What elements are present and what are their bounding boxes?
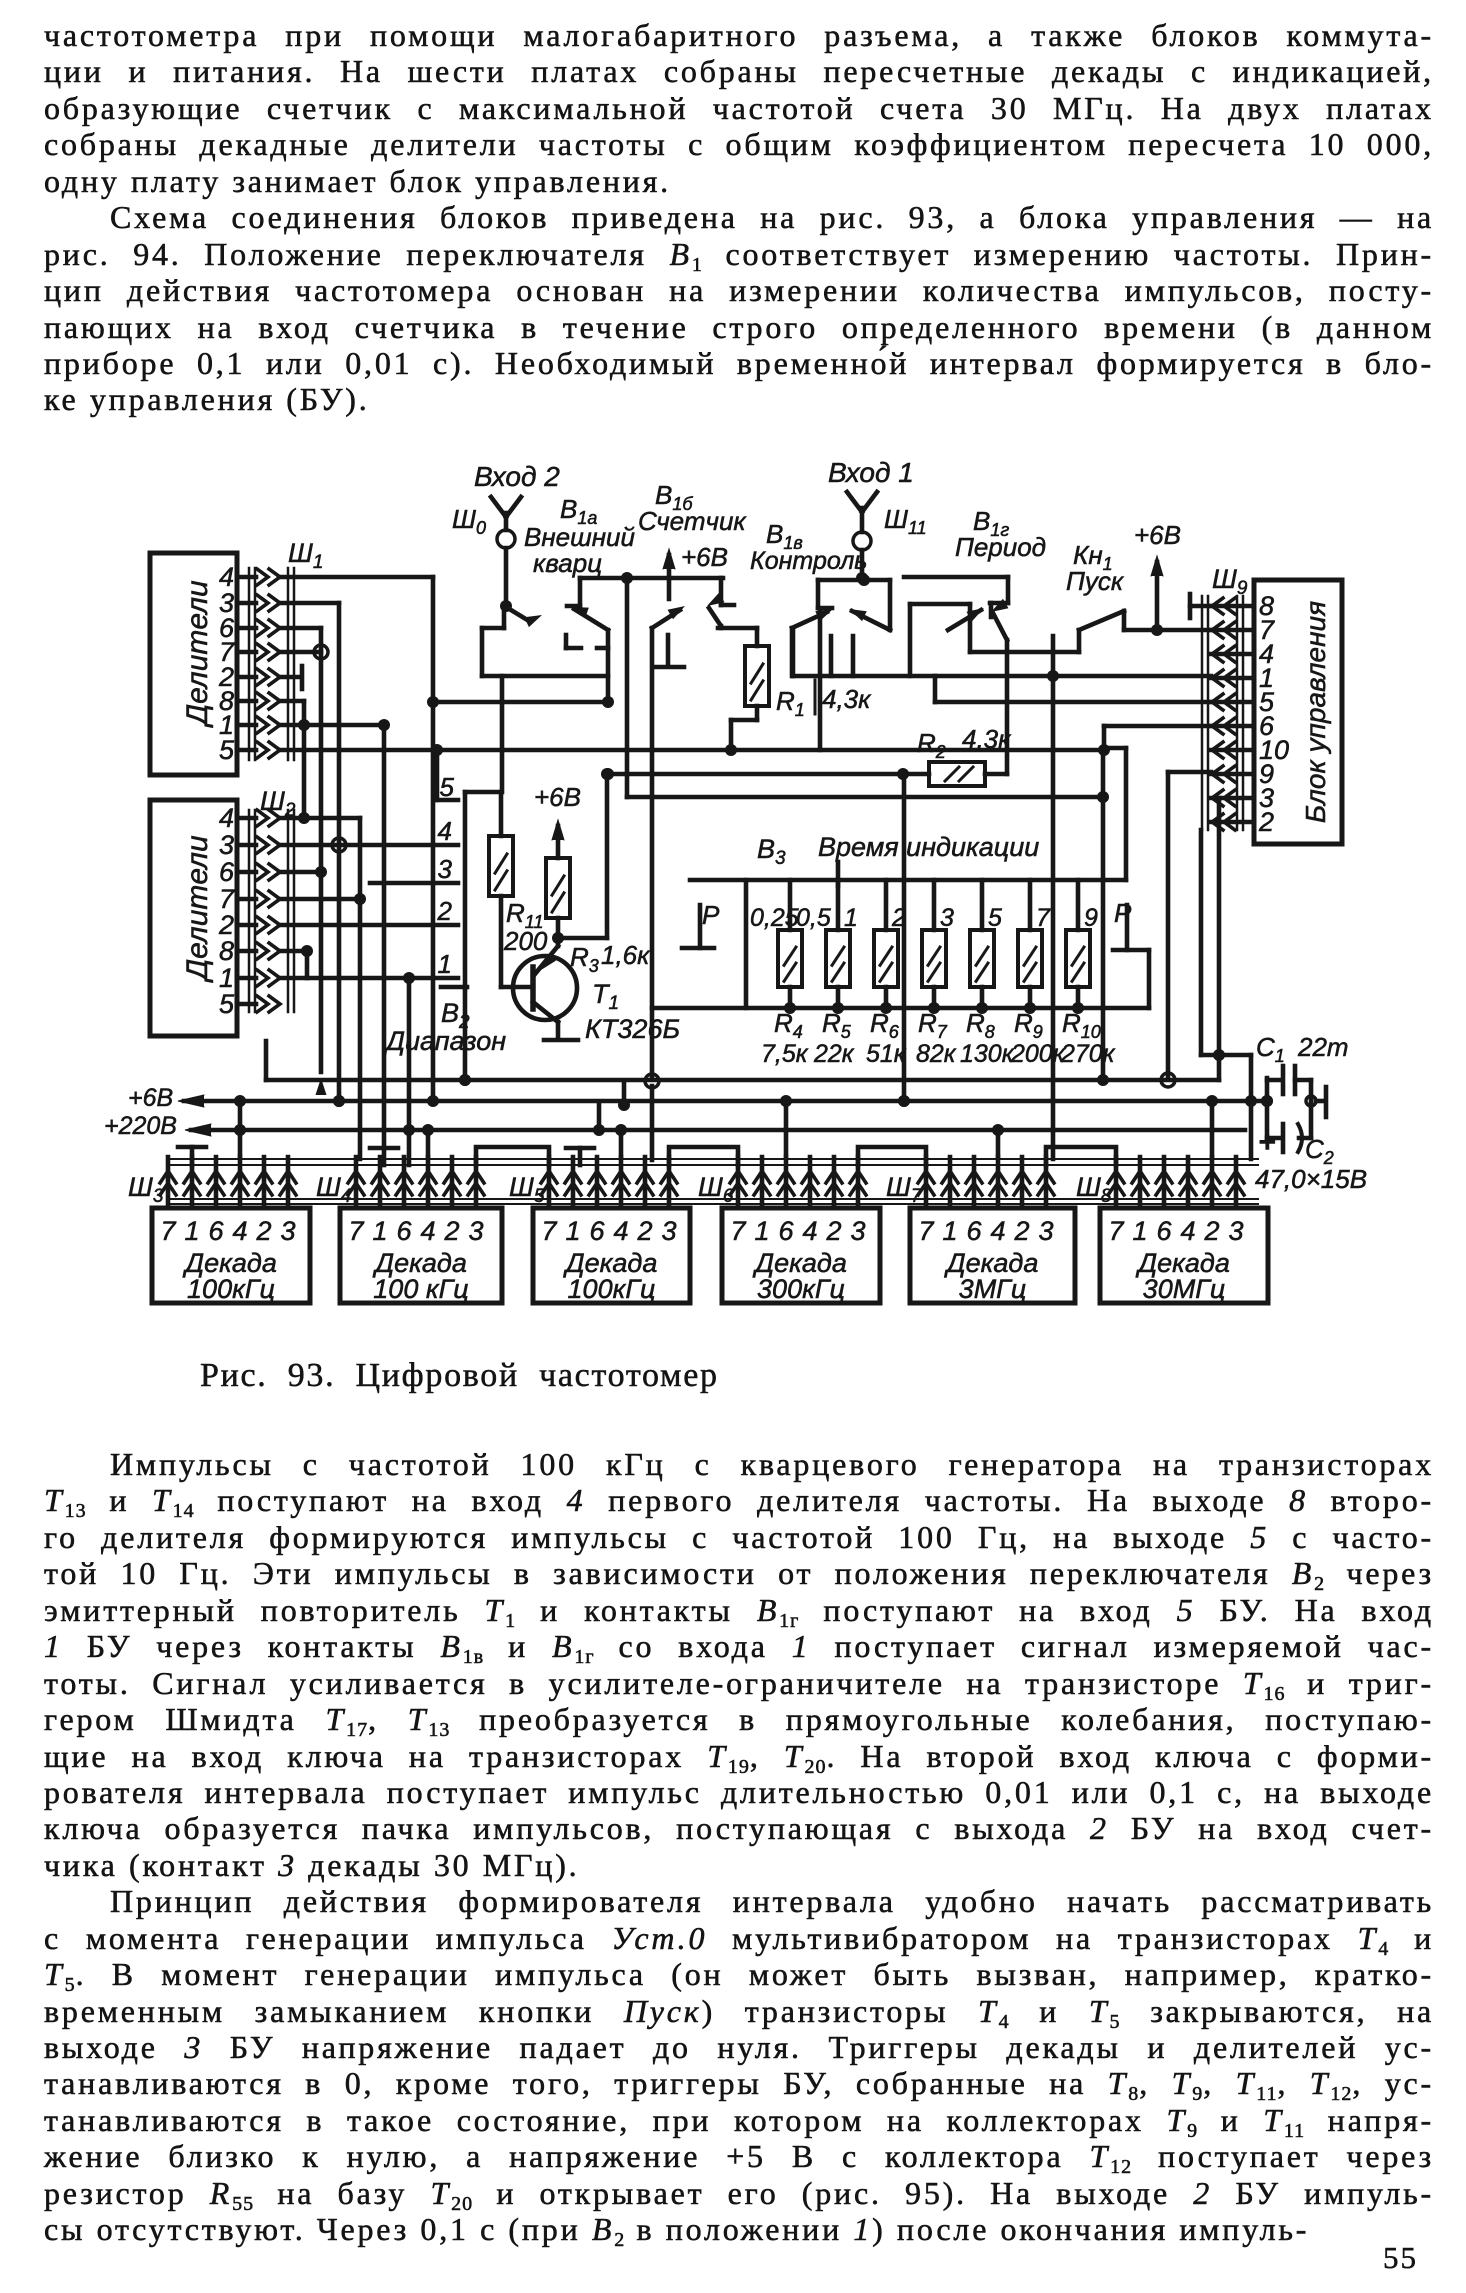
- svg-text:5: 5: [219, 989, 235, 1019]
- top paragraph text: [44, 17, 1434, 418]
- svg-text:С1: С1: [1256, 1032, 1285, 1066]
- connector Ш8 pin 3: [1234, 1157, 1239, 1208]
- connector Ш3 pin 1: [190, 1157, 195, 1208]
- switch B1g top rail: [904, 575, 1008, 580]
- switch B1v blade 2: [792, 612, 827, 628]
- capacitor C2 47,0x15В: [1281, 1124, 1286, 1152]
- svg-text:4: 4: [420, 1216, 435, 1246]
- wire vertical x307: [305, 951, 310, 978]
- wire vertical x904 to +6V bus: [902, 774, 907, 1101]
- svg-text:4: 4: [232, 1216, 247, 1246]
- connector Ш8 pin 4: [1186, 1157, 1191, 1208]
- svg-text:22т: 22т: [1297, 1032, 1349, 1062]
- svg-text:1,6к: 1,6к: [601, 940, 651, 970]
- switch B1b contact step: [719, 578, 724, 605]
- connector Ш8 pin 1: [1138, 1157, 1143, 1208]
- svg-text:22к: 22к: [813, 1040, 855, 1068]
- svg-text:4: 4: [802, 1216, 817, 1246]
- decade box 300кГц: [722, 1208, 880, 1303]
- connector Ш8 pin 7: [1114, 1157, 1119, 1208]
- connector Ш8 pin 2: [1210, 1157, 1215, 1208]
- wire link bus A to +6V bus: [622, 1081, 627, 1105]
- wire Ш1-4 to node: [279, 575, 433, 580]
- wire Ш2-4: [279, 816, 360, 821]
- svg-text:2: 2: [1013, 1216, 1029, 1246]
- svg-text:1: 1: [942, 1216, 957, 1246]
- svg-text:Вход 1: Вход 1: [828, 457, 914, 488]
- connector Ш5 pin 7: [547, 1157, 552, 1208]
- connector Ш8 pin 6: [1162, 1157, 1167, 1208]
- wire Ш1-6: [279, 626, 321, 631]
- resistor R1 4,3k: [755, 628, 760, 646]
- svg-text:3: 3: [219, 830, 234, 860]
- divider block 1 (Делители): [150, 553, 237, 775]
- switch B1g blade 1: [948, 610, 981, 630]
- wire Ш9 pin1 path: [793, 674, 1211, 679]
- wire B1b rail to B3 top line: [625, 578, 630, 797]
- wire stem b6 to +6V bus: [1210, 1101, 1215, 1157]
- thin decade rails: [168, 1158, 1258, 1160]
- svg-text:3: 3: [850, 1216, 865, 1246]
- wire bridge gap 4-5: [858, 1147, 926, 1165]
- svg-text:5: 5: [440, 772, 455, 802]
- wire stem b3 to +220V bus: [619, 1130, 624, 1157]
- svg-text:R7: R7: [918, 1008, 948, 1042]
- switch B1v top rail: [818, 578, 890, 583]
- switch B1a contact hook: [597, 646, 608, 651]
- svg-text:2: 2: [1258, 807, 1274, 837]
- svg-text:100кГц: 100кГц: [568, 1274, 656, 1304]
- svg-text:7: 7: [730, 1216, 746, 1246]
- svg-text:2: 2: [636, 1216, 652, 1246]
- svg-text:R4: R4: [774, 1008, 803, 1042]
- svg-text:2: 2: [255, 1216, 271, 1246]
- figure caption: [200, 1357, 719, 1395]
- wire B2 pole to R11: [465, 790, 501, 795]
- svg-text:5: 5: [988, 904, 1002, 932]
- svg-text:КТ326Б: КТ326Б: [585, 1014, 680, 1044]
- svg-text:Диапазон: Диапазон: [383, 1026, 506, 1056]
- svg-text:R9: R9: [1014, 1008, 1043, 1042]
- connector Ш6 pin 4: [808, 1157, 813, 1208]
- wire R3 node to R2: [608, 772, 929, 777]
- svg-text:300кГц: 300кГц: [757, 1274, 845, 1304]
- switch B2 contact 5: [435, 750, 440, 800]
- connector Ш9 pin 4: [1211, 652, 1254, 657]
- wire vertical x339 down to +6V bus: [337, 603, 342, 1101]
- wire bridge gap 3-4: [669, 1147, 738, 1165]
- svg-text:2: 2: [825, 1216, 841, 1246]
- connector Ш4 pin 3: [474, 1157, 479, 1208]
- switch B1g blade 2: [988, 599, 1008, 617]
- svg-text:4,3к: 4,3к: [822, 684, 872, 714]
- connector Ш9 pin 1: [1211, 676, 1254, 681]
- wire Ш2-1 = B2 contact 1: [279, 976, 458, 981]
- button Кн1 pole: [1077, 630, 1082, 652]
- svg-text:В3: В3: [757, 834, 786, 869]
- switch B1b blade 2: [704, 593, 724, 611]
- svg-text:6: 6: [966, 1216, 982, 1246]
- svg-text:Ш4: Ш4: [316, 1172, 351, 1207]
- connector Ш4 pin 4: [426, 1157, 431, 1208]
- svg-text:3: 3: [468, 1216, 483, 1246]
- wire Ш1-7 stub: [279, 650, 321, 655]
- svg-text:+220В: +220В: [104, 1112, 177, 1140]
- wire Ш1-8 stub: [279, 699, 304, 704]
- wire Ш1-5 long line: [279, 748, 1104, 753]
- connector Ш3 pin 4: [238, 1157, 243, 1208]
- svg-text:4: 4: [1180, 1216, 1195, 1246]
- wire vertical x1053 down to rails: [1051, 676, 1056, 1159]
- svg-text:3: 3: [1228, 1216, 1243, 1246]
- svg-text:1: 1: [184, 1216, 199, 1246]
- resistor R11 200: [499, 792, 504, 836]
- svg-text:6: 6: [589, 1216, 605, 1246]
- connector Ш3 pin 2: [262, 1157, 267, 1208]
- svg-text:30МГц: 30МГц: [1143, 1274, 1226, 1304]
- svg-text:6: 6: [219, 857, 235, 887]
- svg-text:7,5к: 7,5к: [761, 1040, 809, 1068]
- resistor R10: [1076, 880, 1081, 930]
- svg-text:3МГц: 3МГц: [959, 1274, 1027, 1304]
- wire Ш9 pin5 riser: [933, 676, 938, 702]
- svg-text:7: 7: [348, 1216, 364, 1246]
- wire vertical x321 down to bus A: [319, 628, 324, 1072]
- connector Ш9 pin 6: [1211, 724, 1254, 729]
- wire Ш2-8: [279, 949, 307, 954]
- svg-text:Р: Р: [702, 900, 720, 930]
- transistor T1 КТ326Б: [513, 956, 577, 1020]
- switch B1b blade 1: [652, 610, 680, 628]
- wire bridge gap 2-3: [476, 1147, 549, 1165]
- svg-text:4: 4: [613, 1216, 628, 1246]
- wire R3 node to long line: [558, 936, 607, 941]
- connector Ш3 pin 6: [214, 1157, 219, 1208]
- svg-text:4: 4: [438, 816, 452, 846]
- connector Ш6 pin 1: [760, 1157, 765, 1208]
- svg-text:1: 1: [372, 1216, 387, 1246]
- wire +6V arrow at Кн1: [1155, 562, 1160, 630]
- svg-text:4: 4: [219, 803, 234, 833]
- svg-text:3: 3: [1038, 1216, 1053, 1246]
- resistor R8: [980, 880, 985, 930]
- svg-text:Т1: Т1: [592, 979, 619, 1014]
- svg-text:R5: R5: [822, 1008, 852, 1042]
- svg-text:Ш3: Ш3: [128, 1172, 164, 1207]
- svg-text:Ш5: Ш5: [509, 1172, 545, 1207]
- switch B1a blade 1: [506, 607, 529, 621]
- wire Ш2-3 = B2 contact 4: [279, 843, 458, 848]
- svg-text:+6В: +6В: [681, 542, 728, 572]
- wire Ш2-6: [279, 870, 321, 875]
- switch B3 position lead 0,25: [744, 880, 749, 1008]
- connector Ш7 pin 6: [972, 1157, 977, 1208]
- wire Ш9 pin9 path: [1168, 770, 1211, 775]
- wire vertical x384 down to terminator: [382, 725, 387, 1148]
- switch B1g contact gate: [908, 604, 913, 676]
- resistor R4: [788, 880, 793, 930]
- decade box 100 кГц: [340, 1208, 502, 1303]
- wire stem b4 to +6V bus: [784, 1101, 789, 1157]
- svg-text:Ш11: Ш11: [884, 504, 927, 538]
- terminator above b3: [566, 1146, 594, 1151]
- svg-text:Пуск: Пуск: [1066, 566, 1125, 596]
- connector Ш6 pin 2: [832, 1157, 837, 1208]
- connector Ш9 pin 5: [1211, 700, 1254, 705]
- connector Ш7 pin 1: [948, 1157, 953, 1208]
- wire Кн1 contact to Ш9 pin7: [1124, 628, 1211, 633]
- switch B1a blade 2: [569, 602, 589, 618]
- connector Ш4 pin 6: [402, 1157, 407, 1208]
- svg-text:7: 7: [541, 1216, 557, 1246]
- switch B1v contact posts: [829, 636, 834, 676]
- switch B1v blade 1: [847, 604, 867, 621]
- svg-text:6: 6: [208, 1216, 224, 1246]
- switch B2 contact 3: [370, 881, 458, 886]
- svg-text:2: 2: [1203, 1216, 1219, 1246]
- bus line A: [266, 1078, 1219, 1083]
- svg-text:1: 1: [565, 1216, 580, 1246]
- svg-text:100 кГц: 100 кГц: [373, 1274, 468, 1304]
- svg-text:Блок управления: Блок управления: [1300, 601, 1331, 823]
- connector Ш7 pin 7: [924, 1157, 929, 1208]
- svg-text:3: 3: [940, 904, 954, 932]
- svg-text:6: 6: [396, 1216, 412, 1246]
- wire stem b5 to +220V bus: [996, 1130, 1001, 1157]
- connector Ш2 rails: [248, 810, 251, 1012]
- switch B3 wiper: [836, 862, 841, 886]
- wire Ш1-3: [279, 601, 339, 606]
- connector Ш1 rails: [248, 568, 251, 760]
- wire Ш1-1: [279, 723, 384, 728]
- wire to Ш9 pin5: [935, 700, 1211, 705]
- connector Ш5 pin 3: [667, 1157, 672, 1208]
- switch B3 right edge: [1147, 950, 1152, 1008]
- svg-text:Счетчик: Счетчик: [638, 506, 747, 536]
- connector Ш5 pin 2: [643, 1157, 648, 1208]
- wire vertical x304: [302, 701, 307, 818]
- svg-text:3: 3: [438, 854, 453, 884]
- svg-text:Ш0: Ш0: [452, 504, 486, 538]
- wire stub below divider 2: [264, 1041, 269, 1080]
- wire B2 wiper to bus A: [463, 988, 468, 1080]
- svg-text:4: 4: [990, 1216, 1005, 1246]
- wire stem b1 to +6V bus: [238, 1101, 243, 1157]
- connector Ш9 rails: [1201, 596, 1204, 830]
- svg-text:1: 1: [438, 949, 452, 979]
- svg-text:Вход 2: Вход 2: [474, 461, 560, 492]
- connector Ш5 pin 1: [571, 1157, 576, 1208]
- switch B2 wiper: [463, 792, 468, 988]
- svg-text:1: 1: [1132, 1216, 1147, 1246]
- wire bus A to Ш9 pin3: [1217, 798, 1222, 1080]
- connector Ш6 pin 6: [784, 1157, 789, 1208]
- svg-text:Ш8: Ш8: [1076, 1172, 1112, 1207]
- resistor R7: [932, 880, 937, 930]
- switch B1b lower contact: [666, 635, 671, 665]
- wire connector Ш9 descender: [1199, 830, 1204, 1055]
- svg-text:7: 7: [1108, 1216, 1124, 1246]
- button Кн1 contact bracket: [1051, 636, 1056, 676]
- switch B1v contact step: [816, 580, 821, 608]
- wire Ш1-2 stub with terminator: [279, 675, 300, 680]
- svg-text:+: +: [1258, 1126, 1276, 1159]
- switch B3 bottom rail: [652, 1006, 1149, 1011]
- svg-text:200к: 200к: [1010, 1040, 1066, 1068]
- svg-text:47,0×15В: 47,0×15В: [1255, 1164, 1367, 1194]
- svg-text:1: 1: [754, 1216, 769, 1246]
- wire Ш9 pin8 terminator: [1190, 604, 1211, 609]
- resistor R3 1,6k: [556, 826, 561, 858]
- connector Ш3 pin 3: [286, 1157, 291, 1208]
- svg-text:+6В: +6В: [534, 782, 581, 812]
- svg-text:R10: R10: [1062, 1008, 1101, 1042]
- wire B1b right to R1: [719, 626, 724, 628]
- svg-text:100кГц: 100кГц: [187, 1274, 275, 1304]
- resistor R9: [1028, 880, 1033, 930]
- connector Ш4 pin 7: [354, 1157, 359, 1208]
- svg-text:3: 3: [280, 1216, 295, 1246]
- connector Ш4 pin 1: [378, 1157, 383, 1208]
- svg-text:270к: 270к: [1060, 1040, 1116, 1068]
- wire Ш9 pin6 path: [1104, 724, 1211, 729]
- svg-text:7: 7: [918, 1216, 934, 1246]
- svg-text:8: 8: [219, 936, 234, 966]
- connector Ш9 pin 9: [1211, 772, 1254, 777]
- svg-text:130к: 130к: [960, 1040, 1015, 1068]
- wire B3 top line: [627, 795, 1103, 800]
- svg-text:7: 7: [1036, 904, 1051, 932]
- svg-text:Время индикации: Время индикации: [818, 832, 1039, 862]
- connector Ш6 pin 3: [856, 1157, 861, 1208]
- switch B1a contact step: [578, 578, 583, 606]
- decade box 30МГц: [1100, 1208, 1268, 1303]
- chassis terminal: [1306, 1096, 1316, 1106]
- svg-text:+6В: +6В: [1134, 520, 1181, 550]
- switch B1a top rail: [580, 576, 723, 581]
- connector Ш5 pin 6: [595, 1157, 600, 1208]
- connector Ш5 pin 4: [619, 1157, 624, 1208]
- wire Ш2-7: [279, 897, 360, 902]
- svg-text:2: 2: [891, 904, 906, 932]
- svg-text:9: 9: [1084, 904, 1098, 932]
- wire R2 to B1g corner: [985, 772, 1007, 777]
- svg-text:6: 6: [778, 1216, 794, 1246]
- connector Ш9 pin 3: [1211, 796, 1254, 801]
- connector Ш3 pin 7: [166, 1157, 171, 1208]
- wire below bus A to decade rails: [650, 1086, 655, 1160]
- svg-text:Делители: Делители: [181, 835, 214, 983]
- wire vertical x360 down to decade bus: [358, 818, 363, 1159]
- wire vertical x409 down past +220V bus: [407, 978, 412, 1165]
- wire B1g to R2: [1005, 640, 1010, 774]
- switch B1a lower bracket: [502, 606, 507, 628]
- svg-text:1: 1: [844, 904, 858, 932]
- wire bridge gap 5-6: [1046, 1147, 1116, 1165]
- divider block 2 (Делители): [150, 800, 237, 1036]
- svg-text:2: 2: [443, 1216, 459, 1246]
- switch B3 rail: [690, 878, 1126, 883]
- svg-text:82к: 82к: [916, 1040, 957, 1068]
- svg-text:R2: R2: [917, 728, 946, 762]
- svg-text:+6В: +6В: [128, 1084, 173, 1112]
- connector Ш9 pin 7: [1211, 628, 1254, 633]
- button Кн1 blade: [1079, 611, 1124, 630]
- svg-text:51к: 51к: [866, 1040, 907, 1068]
- connector Ш9 pin 2: [1211, 820, 1254, 825]
- connector Ш6 pin 7: [736, 1157, 741, 1208]
- svg-text:Ш6: Ш6: [698, 1172, 734, 1207]
- connector Ш7 pin 2: [1020, 1157, 1025, 1208]
- wire B1a to emitter line: [606, 630, 611, 702]
- svg-text:3: 3: [661, 1216, 676, 1246]
- svg-text:2: 2: [437, 896, 453, 926]
- wire stem b2 to +220V bus: [426, 1130, 431, 1157]
- wire B1a bracket to R11: [500, 676, 505, 792]
- connector Ш7 pin 4: [996, 1157, 1001, 1208]
- control unit box (Блок управления): [1254, 580, 1342, 844]
- svg-text:7: 7: [160, 1216, 176, 1246]
- svg-text:Контроль: Контроль: [750, 547, 867, 575]
- decade box 3МГц: [910, 1208, 1075, 1303]
- svg-text:5: 5: [219, 735, 235, 765]
- connector Ш9 pin 8: [1211, 604, 1254, 609]
- svg-text:6: 6: [1156, 1216, 1172, 1246]
- svg-text:Ш7: Ш7: [886, 1172, 923, 1207]
- wire Ш2-2 = B2 contact 2: [279, 923, 458, 928]
- resistor R2 4,3k: [929, 762, 985, 786]
- resistor R6: [884, 880, 889, 930]
- terminator above b1: [178, 1145, 206, 1150]
- decade box 100кГц: [533, 1208, 690, 1303]
- svg-text:R8: R8: [966, 1008, 995, 1042]
- svg-text:Период: Период: [955, 532, 1046, 562]
- connector Ш7 pin 3: [1044, 1157, 1049, 1208]
- svg-text:кварц: кварц: [533, 548, 602, 578]
- svg-text:Ш9: Ш9: [1212, 564, 1248, 599]
- wire vertical x433 down to +6V bus: [431, 577, 436, 1101]
- svg-text:R6: R6: [870, 1008, 900, 1042]
- svg-text:Делители: Делители: [181, 580, 214, 728]
- wire collector to B1a bracket: [433, 700, 608, 705]
- page number: [1383, 2240, 1418, 2276]
- resistor R5: [836, 880, 841, 930]
- connector Ш4 pin 2: [450, 1157, 455, 1208]
- wire +6V arrow B1b: [667, 555, 672, 599]
- wire link +6V bus to +220V bus: [597, 1105, 602, 1130]
- svg-text:R1: R1: [776, 686, 805, 720]
- bottom text: [44, 1446, 1434, 2248]
- svg-text:0,5: 0,5: [796, 904, 831, 932]
- switch B1v lower bracket: [790, 628, 795, 676]
- decade box 100кГц: [152, 1208, 310, 1303]
- wire B1v step down to line: [818, 609, 823, 750]
- connector Ш9 pin 10: [1211, 748, 1254, 753]
- svg-text:200: 200: [503, 926, 548, 956]
- wire B1b down to bus A: [650, 628, 655, 1076]
- wire long vertical x1103 to bus A: [1101, 750, 1106, 1080]
- svg-text:4,3к: 4,3к: [962, 724, 1012, 754]
